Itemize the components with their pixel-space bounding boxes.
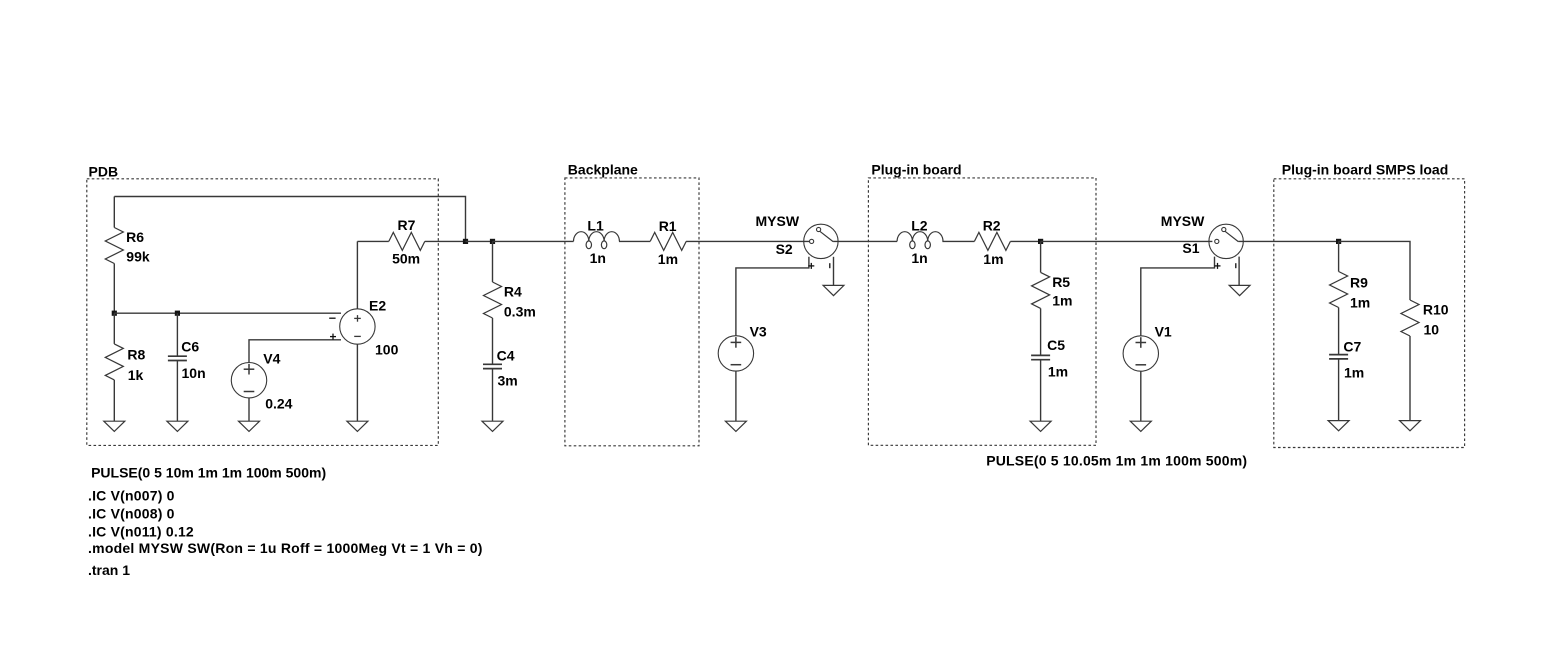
svg-text:R4: R4	[504, 284, 522, 300]
wire node C to node D	[466, 240, 493, 242]
S1 control - pin wire to ground	[1238, 257, 1240, 286]
svg-text:L2: L2	[911, 217, 928, 233]
svg-text:V4: V4	[263, 351, 280, 367]
section box Plug-in board SMPS load	[1274, 179, 1465, 448]
S2 control + pin wire	[736, 257, 809, 336]
wire C5 bottom	[1040, 360, 1042, 422]
svg-text:E2: E2	[369, 298, 386, 314]
voltage source V3	[718, 336, 753, 371]
svg-text:C5: C5	[1047, 337, 1065, 353]
wire C6 top	[176, 313, 178, 356]
svg-text:1k: 1k	[128, 367, 144, 383]
svg-text:S2: S2	[776, 241, 793, 257]
wire node A to R8	[113, 313, 115, 344]
svg-text:1n: 1n	[590, 250, 606, 266]
section box PDB	[87, 179, 439, 446]
ground C7	[1328, 421, 1349, 431]
node B junction (C6 tap)	[175, 311, 180, 316]
wire R9 to C7	[1338, 308, 1340, 355]
svg-text:R5: R5	[1052, 274, 1070, 290]
svg-text:MYSW: MYSW	[756, 213, 800, 229]
svg-text:.IC V(n011) 0.12: .IC V(n011) 0.12	[88, 523, 194, 539]
node A junction	[112, 311, 117, 316]
resistor R4	[484, 282, 502, 318]
svg-text:C6: C6	[181, 339, 199, 355]
inductor L1	[574, 232, 589, 242]
wire R5 to C5	[1040, 308, 1042, 355]
ground V4	[239, 421, 260, 431]
wire R7 to node C	[425, 240, 466, 242]
S2 control - pin wire to ground	[833, 257, 835, 286]
wire R4 to C4	[492, 318, 494, 364]
svg-text:L1: L1	[587, 218, 604, 234]
wire V1 bottom	[1140, 371, 1142, 421]
svg-text:R7: R7	[398, 217, 416, 233]
E2 internal minus	[354, 335, 361, 337]
wire S1 to node F	[1238, 240, 1338, 242]
wire S2 to L2	[833, 240, 897, 242]
ground R10	[1400, 421, 1421, 431]
wire V3 bottom	[735, 371, 737, 421]
svg-text:3m: 3m	[498, 372, 518, 388]
svg-text:Backplane: Backplane	[568, 162, 638, 178]
S1 control plus label	[1215, 265, 1221, 267]
svg-text:MYSW: MYSW	[1161, 213, 1205, 229]
svg-text:10n: 10n	[182, 365, 206, 381]
wire V4 bottom	[248, 398, 250, 421]
inductor L2	[897, 232, 912, 242]
wire C7 bottom	[1338, 359, 1340, 421]
wire node D to L1	[493, 240, 574, 242]
svg-text:0.24: 0.24	[265, 396, 292, 412]
wire R6 bottom to node A	[113, 264, 115, 314]
svg-text:10: 10	[1424, 322, 1440, 338]
capacitor C6	[168, 355, 187, 357]
node F junction (R9 tap)	[1336, 239, 1341, 244]
S2 control minus label	[829, 263, 831, 268]
wire top feedback from R6 top to rail drop	[114, 197, 465, 242]
ground C6	[167, 421, 188, 431]
ground S2	[823, 285, 844, 295]
resistor R1	[650, 232, 686, 250]
svg-text:R9: R9	[1350, 275, 1368, 291]
wire E2 top corner to R7	[357, 240, 388, 242]
capacitor C7	[1329, 354, 1348, 356]
capacitor C4	[483, 363, 502, 365]
wire R5 top	[1040, 241, 1042, 272]
resistor R5	[1032, 272, 1050, 308]
svg-text:PULSE(0 5 10m 1m 1m 100m 500m): PULSE(0 5 10m 1m 1m 100m 500m)	[91, 465, 326, 481]
capacitor C5	[1031, 354, 1050, 356]
E2 minus input label	[329, 317, 335, 319]
switch S2 (MYSW)	[804, 224, 838, 258]
svg-text:1m: 1m	[658, 251, 678, 267]
wire node F to R10 corner	[1339, 241, 1410, 300]
svg-text:1m: 1m	[1350, 295, 1370, 311]
wire R2 to node E	[1010, 240, 1040, 242]
wire E2 bottom	[356, 344, 358, 421]
wire V4 top to E2 plus input	[249, 340, 341, 363]
svg-text:S1: S1	[1182, 240, 1199, 256]
S1 control + pin wire	[1141, 257, 1215, 336]
ground S1	[1229, 285, 1250, 295]
svg-text:Plug-in board SMPS load: Plug-in board SMPS load	[1282, 162, 1448, 178]
svg-text:.IC V(n008) 0: .IC V(n008) 0	[88, 506, 175, 522]
svg-text:R10: R10	[1423, 302, 1449, 318]
node D junction (R4 tap)	[490, 239, 495, 244]
wire C4 bottom	[492, 369, 494, 422]
op-amp E2 (VCVS) body	[340, 309, 375, 344]
svg-text:R8: R8	[127, 346, 145, 362]
ground E2	[347, 421, 368, 431]
ground V3	[725, 421, 746, 431]
svg-text:1n: 1n	[911, 250, 927, 266]
wire node A to E2 minus input	[114, 312, 341, 314]
wire R1 to switch S2	[686, 240, 809, 242]
wire C6 bottom	[176, 361, 178, 422]
svg-text:PULSE(0 5 10.05m 1m 1m 100m 50: PULSE(0 5 10.05m 1m 1m 100m 500m)	[986, 453, 1247, 469]
voltage source V1	[1123, 336, 1158, 371]
ground C5	[1030, 421, 1051, 431]
wire node E to switch S1	[1041, 240, 1213, 242]
resistor R8	[105, 344, 123, 380]
voltage source V4	[231, 363, 266, 398]
svg-text:.model MYSW SW(Ron = 1u Roff =: .model MYSW SW(Ron = 1u Roff = 1000Meg V…	[88, 540, 483, 556]
svg-text:C4: C4	[497, 348, 515, 364]
section box Plug-in board	[868, 178, 1096, 445]
E2 internal plus	[354, 317, 361, 319]
svg-text:C7: C7	[1343, 339, 1361, 355]
svg-text:V3: V3	[750, 324, 767, 340]
wire E2 output top to rail	[356, 241, 358, 308]
wire R6 top stub	[113, 197, 115, 228]
wire L2 to R2	[942, 240, 974, 242]
wire R10 bottom	[1409, 336, 1411, 421]
resistor R2	[974, 232, 1010, 250]
svg-text:1m: 1m	[1344, 365, 1364, 381]
svg-text:50m: 50m	[392, 251, 420, 267]
resistor R7	[389, 232, 425, 250]
resistor R9	[1330, 272, 1348, 308]
wire R8 to ground	[113, 380, 115, 421]
svg-text:1m: 1m	[983, 251, 1003, 267]
wire R4 top	[492, 241, 494, 282]
svg-text:Plug-in board: Plug-in board	[871, 162, 961, 178]
svg-text:0.3m: 0.3m	[504, 304, 536, 320]
wire R9 top	[1338, 241, 1340, 271]
ground R8	[104, 421, 125, 431]
svg-text:R2: R2	[983, 217, 1001, 233]
svg-text:V1: V1	[1155, 324, 1172, 340]
svg-text:1m: 1m	[1048, 363, 1068, 379]
section box Backplane	[565, 178, 699, 446]
resistor R6	[105, 228, 123, 264]
svg-text:R1: R1	[659, 218, 677, 234]
ground V1	[1130, 421, 1151, 431]
node C junction (feedback tap)	[463, 239, 468, 244]
svg-text:.IC V(n007) 0: .IC V(n007) 0	[88, 488, 175, 504]
ground C4	[482, 421, 503, 431]
svg-text:99k: 99k	[126, 249, 150, 265]
resistor R10	[1401, 300, 1419, 336]
svg-text:1m: 1m	[1052, 293, 1072, 309]
S1 control minus label	[1235, 263, 1237, 268]
node E junction (R5 tap)	[1038, 239, 1043, 244]
svg-text:PDB: PDB	[89, 163, 119, 179]
wire L1 to R1	[619, 240, 650, 242]
S2 control plus label	[808, 265, 814, 267]
svg-text:R6: R6	[126, 229, 144, 245]
switch S1 (MYSW)	[1209, 224, 1243, 258]
svg-text:100: 100	[375, 342, 399, 358]
svg-text:.tran 1: .tran 1	[88, 562, 130, 578]
E2 plus input label	[330, 336, 336, 338]
